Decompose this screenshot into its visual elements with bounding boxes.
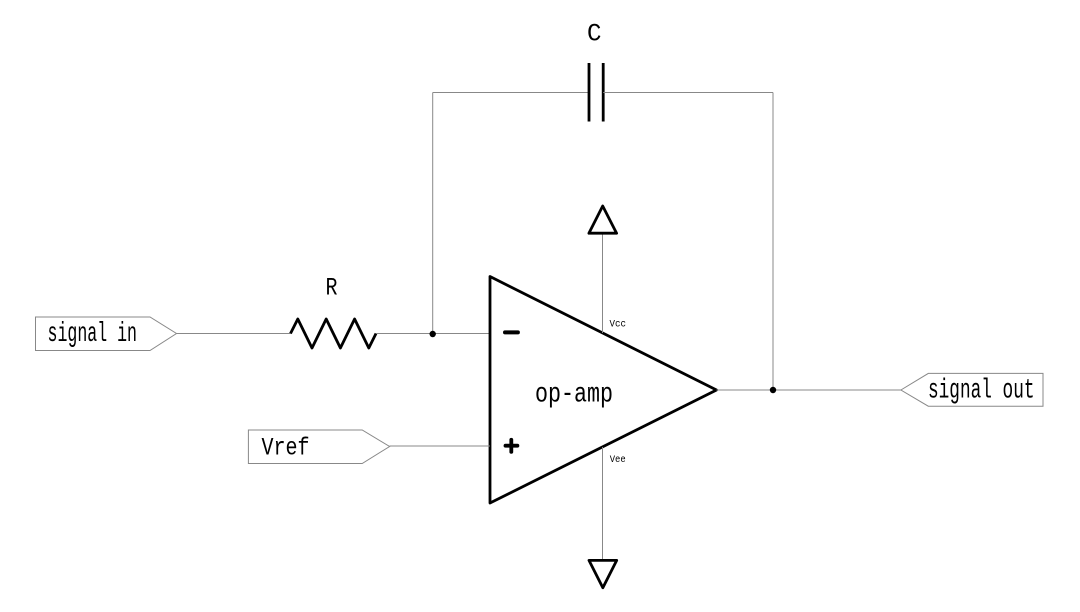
flag Vref bbox=[248, 430, 389, 464]
svg-text:C: C bbox=[587, 19, 602, 48]
wire output to signal out flag bbox=[717, 389, 901, 391]
wire Vee from op-amp bottom edge down bbox=[602, 447, 604, 560]
power symbol Vcc arrow bbox=[589, 206, 617, 233]
resistor R bbox=[291, 319, 377, 348]
wire Vcc down to op-amp top edge bbox=[602, 234, 604, 334]
wire Vref to non-inverting input bbox=[390, 445, 490, 447]
flag signal in bbox=[36, 317, 177, 351]
node output junction bbox=[770, 387, 776, 393]
wire junction up to feedback rail bbox=[432, 93, 434, 334]
wire output rail down to output node bbox=[772, 93, 774, 391]
svg-text:signal out: signal out bbox=[928, 376, 1035, 407]
svg-text:Vcc: Vcc bbox=[610, 318, 627, 330]
wire signal in to resistor bbox=[177, 333, 291, 335]
svg-text:Vee: Vee bbox=[610, 454, 626, 466]
svg-text:R: R bbox=[326, 274, 338, 303]
pin plus (non-inverting input) bbox=[506, 440, 518, 452]
op-amp U1 bbox=[490, 277, 717, 504]
capacitor C bbox=[589, 63, 603, 122]
svg-text:op-amp: op-amp bbox=[535, 380, 613, 411]
flag signal out bbox=[901, 373, 1043, 406]
node junction at inverting input bbox=[430, 331, 436, 337]
svg-text:Vref: Vref bbox=[262, 434, 310, 463]
power symbol Vee arrow bbox=[589, 560, 617, 587]
wire resistor to inverting input bbox=[376, 333, 490, 335]
wire feedback rail left to capacitor bbox=[433, 92, 589, 94]
svg-text:signal in: signal in bbox=[48, 319, 138, 350]
wire capacitor to output rail bbox=[603, 92, 773, 94]
pin minus (inverting input) bbox=[505, 330, 518, 334]
